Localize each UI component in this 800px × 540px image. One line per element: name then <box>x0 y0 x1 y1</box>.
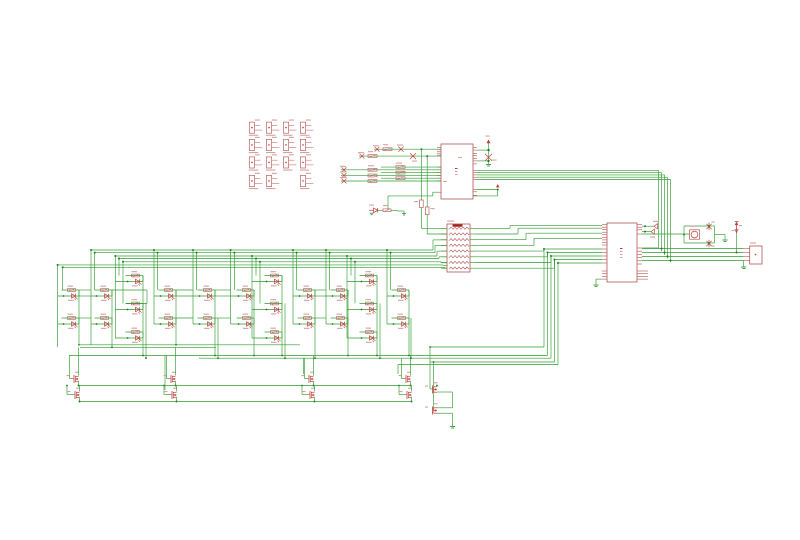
diode D1 resistor R17 <box>369 205 406 216</box>
capacitor C2 <box>706 222 714 231</box>
wire cell return 14 <box>347 290 349 356</box>
VCC stub U1 bottom right <box>473 184 500 196</box>
LED cell 20 <box>326 314 348 329</box>
wire cell return 8 <box>217 318 219 358</box>
LED cell 5 <box>115 271 143 286</box>
resistor R_pd1 <box>414 148 447 228</box>
capacitor C1 bypass <box>477 136 497 167</box>
transistor Q2 <box>66 385 80 403</box>
column verticals x160 <box>153 249 159 324</box>
crystal Q1 <box>642 226 709 243</box>
wire cell return 18 <box>410 318 412 358</box>
switch S3 <box>283 120 297 136</box>
net label row1 <box>397 145 404 152</box>
LED cell 7 <box>115 328 143 343</box>
wire column driver 4 to U2 <box>554 259 556 363</box>
wire cell return 15 <box>376 276 378 356</box>
bus wire U1-U2 1 <box>477 170 659 248</box>
LED cell 1 <box>58 286 79 301</box>
wire cell return 1 <box>78 290 80 345</box>
input row 1 to U1 <box>373 145 441 151</box>
wire jog vert Q5b <box>433 361 435 410</box>
switch S1 <box>249 120 262 136</box>
LED cell 2 <box>58 314 79 329</box>
transistor Q8 <box>398 385 412 403</box>
input row 3 to U1 <box>381 163 441 169</box>
LED cell 13 <box>231 314 254 329</box>
wire RN1 out 7 to U2 <box>476 256 602 263</box>
LED cell 23 <box>347 328 377 343</box>
resistor row1 <box>383 144 392 150</box>
wire RN1 out 4 to U2 <box>476 238 602 245</box>
wire U1 to D1 <box>388 192 437 210</box>
switch S8 <box>300 137 314 153</box>
LED cell 4 <box>91 314 112 329</box>
bus wire row 1 to RN1 <box>91 240 447 250</box>
bus wire row 3 to RN1 <box>115 251 447 256</box>
resistor network RN1 <box>441 221 476 273</box>
bus wire U1-U2 3 <box>477 175 665 255</box>
column verticals x63 <box>57 264 64 347</box>
wire jog vert Q5a <box>429 346 432 389</box>
bus wire U1-U2 2 <box>477 173 662 252</box>
IC U1 keypad encoder <box>437 144 477 199</box>
input row 6 to U1 <box>340 171 441 178</box>
ground U2 <box>593 279 602 286</box>
ground X1 <box>741 261 746 269</box>
wire bottom row E <box>199 357 551 359</box>
switch S9 <box>249 154 262 170</box>
diode D2 <box>732 222 743 254</box>
wire bottom row C <box>430 346 544 348</box>
input row 7 to U1 <box>381 174 441 180</box>
wire cell return 3 <box>142 276 144 356</box>
wire column driver 5 to U2 <box>557 262 602 365</box>
net label row2 <box>410 153 417 162</box>
LED cell 3 <box>91 286 112 301</box>
transistor Q7 <box>399 356 412 387</box>
bus wire row 7 to RN1 <box>63 266 447 269</box>
wire column driver 1 to U2 <box>543 248 545 347</box>
switch S12 <box>300 154 314 170</box>
LED cell 16 <box>252 328 282 343</box>
switch S15 <box>300 173 314 189</box>
wire U2 to X1 pin 1 <box>642 248 744 250</box>
transistor Q3 <box>164 347 177 386</box>
wire cell return 11 <box>284 304 286 359</box>
wire column driver 3 to U2 <box>550 255 552 358</box>
switch S14 <box>266 173 280 189</box>
wire cell return 7 <box>214 290 216 356</box>
column verticals x332 <box>325 249 331 324</box>
wire U2 to X1 pin 2 <box>642 252 744 254</box>
resistor row2 <box>368 151 377 157</box>
column verticals x266 <box>251 255 261 338</box>
input row 5 to U1 <box>381 168 441 174</box>
wire U2 to X1 pin 4 <box>642 260 744 262</box>
wire bottom row B <box>80 346 216 348</box>
wire cell return 13 <box>303 358 305 374</box>
wire cell return 9 <box>253 290 255 356</box>
LED cell 10 <box>193 286 215 301</box>
wire drain row 1 <box>79 385 411 387</box>
wire cell return 6 <box>164 356 166 391</box>
transistor Q6 <box>301 385 315 403</box>
wire vert1 to U2 <box>642 247 659 249</box>
transistor Q9 <box>425 382 453 408</box>
input row 8 to U1 <box>340 176 441 183</box>
wire U2 to X1 pin 3 <box>642 256 744 258</box>
bus wire U1-U2 5 <box>477 180 671 263</box>
switch S6 <box>266 137 280 153</box>
wire bottom row G <box>398 364 558 366</box>
input row 4 to U1 <box>340 165 441 172</box>
bus wire row 6 to RN1 <box>58 264 447 267</box>
wire RN1 out 8 to U2 <box>476 260 602 269</box>
switch S11 <box>283 154 297 170</box>
LED cell 14 <box>252 271 282 286</box>
column verticals x238 <box>230 249 236 324</box>
wire cell return 10 <box>281 276 283 356</box>
LED cell 24 <box>387 286 409 301</box>
wire RN1 out 2 to U2 <box>476 228 602 234</box>
LED cell 11 <box>193 314 215 329</box>
column verticals x361 <box>346 255 356 338</box>
LED cell 18 <box>293 314 315 329</box>
LED cell 8 <box>154 286 176 301</box>
wire RN1 out 6 to U2 <box>476 253 602 257</box>
switch S10 <box>266 154 280 170</box>
IC U2 microcontroller <box>602 223 648 282</box>
wire cell return 17 <box>408 290 410 356</box>
column verticals x393 <box>386 249 392 324</box>
resistor R_pd2 <box>425 155 447 234</box>
capacitor C3 <box>706 240 714 247</box>
transistor Q1 <box>67 347 80 386</box>
switch S4 <box>300 120 314 136</box>
wire column driver 2 to U2 <box>547 252 549 356</box>
column verticals x199 <box>192 249 198 324</box>
wire cell return 16 <box>379 304 381 359</box>
LED cell 12 <box>231 286 254 301</box>
transistor Q5 <box>302 356 315 387</box>
switch S2 <box>266 120 280 136</box>
switch S13 <box>249 173 262 189</box>
wire cell return 2 <box>111 290 113 347</box>
column verticals x96 <box>90 249 96 345</box>
wire bottom row D <box>69 355 548 357</box>
wire RN1 out 5 to U2 <box>476 249 602 251</box>
switch S5 <box>249 137 262 153</box>
column verticals x127 <box>114 255 124 338</box>
wire RN1 out 3 to U2 <box>476 233 602 240</box>
LED cell 21 <box>347 271 377 286</box>
LED cell 15 <box>252 299 282 314</box>
LED cell 19 <box>326 286 348 301</box>
wire serpentine 96-127 <box>112 290 147 304</box>
LED cell 25 <box>387 314 409 329</box>
wire cell return 12 <box>314 290 316 358</box>
LED cell 9 <box>154 314 176 329</box>
bus wire row 2 to RN1 <box>95 245 447 252</box>
bus wire row 5 to RN1 <box>123 262 447 263</box>
LED cell 22 <box>347 299 377 314</box>
bus wire row 4 to RN1 <box>119 257 447 259</box>
wire stub vert f5 <box>397 365 399 375</box>
input row 2 to U1 <box>358 152 441 158</box>
LED cell 17 <box>293 286 315 301</box>
LED cell 6 <box>115 299 143 314</box>
junctions bottom <box>78 344 412 359</box>
switch S7 <box>283 137 297 153</box>
wire bottom row A <box>80 344 300 346</box>
wire drain row 2 <box>80 401 412 403</box>
net flags right of U2 <box>642 221 658 238</box>
connector X1 <box>744 243 762 265</box>
wire bottom row F <box>431 361 555 363</box>
wire cell return 4 <box>145 304 147 359</box>
bus wire U1-U2 4 <box>477 177 668 258</box>
wire RN1 out 1 to U2 <box>476 226 602 229</box>
ground crystal <box>709 226 728 243</box>
wire cell return 5 <box>175 290 177 345</box>
wire group links <box>79 290 326 318</box>
transistor Q10 ground <box>425 403 455 428</box>
column verticals x299 <box>292 249 298 324</box>
transistor Q4 <box>163 385 177 403</box>
